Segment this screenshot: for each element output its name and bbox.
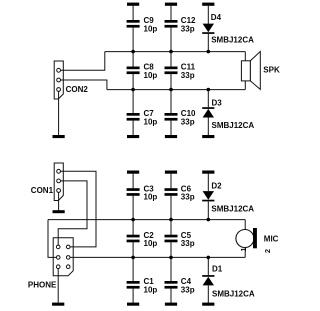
ground bar under PHONE [52, 303, 64, 306]
diode D3 [202, 98, 254, 130]
diode D3 wire top [207, 90, 209, 108]
svg-text:CON1: CON1 [31, 186, 54, 195]
diode D4 wire top [207, 5, 209, 24]
ground bar under C7 [127, 135, 139, 138]
wire C4 top [170, 257, 172, 281]
capacitor C2 [127, 231, 158, 248]
diode D1 [202, 264, 255, 298]
svg-text:10p: 10p [144, 239, 158, 248]
diode D2 [202, 182, 254, 214]
node rail2/D3 [207, 88, 211, 92]
capacitor C5 [165, 231, 195, 248]
diode D2 wire top [207, 173, 209, 192]
wire C9 bottom [132, 27, 134, 51]
svg-text:10p: 10p [144, 286, 158, 295]
diode D1 wire bottom [207, 285, 209, 304]
wire C8 bottom [132, 74, 134, 90]
wire PHONE left-bottom pin to ground [57, 269, 59, 303]
ground bar under CON1 [53, 210, 65, 213]
svg-text:SMBJ12CA: SMBJ12CA [212, 121, 255, 130]
svg-text:33p: 33p [181, 239, 195, 248]
supply bar above D2 [202, 171, 214, 174]
node rail3/C6 [169, 218, 173, 222]
wire C5 top [170, 220, 172, 236]
wire C5 bottom [170, 242, 172, 258]
node rail4/C5 [169, 256, 173, 260]
wire CON1 pin3 to ground [58, 192, 60, 211]
wire C7 top [132, 90, 134, 114]
ground bar under C10 [165, 135, 177, 138]
svg-text:SMBJ12CA: SMBJ12CA [212, 289, 255, 298]
capacitor C4 [165, 277, 195, 294]
svg-text:D3: D3 [212, 98, 223, 107]
wire C12 bottom [170, 27, 172, 51]
wire rail3 (net to MIC top) [48, 219, 245, 221]
wire CON2 pin1 to rail1 [61, 52, 105, 71]
svg-text:33p: 33p [181, 286, 195, 295]
svg-text:10p: 10p [144, 118, 158, 127]
wire C6 top [170, 173, 172, 189]
wire C11 top [170, 52, 172, 67]
capacitor C11 [165, 63, 196, 80]
wire C2 top [132, 220, 134, 236]
svg-text:D4: D4 [211, 13, 222, 22]
svg-text:MIC: MIC [264, 234, 279, 243]
capacitor C10 [165, 109, 197, 126]
ground bar under C4 [165, 303, 177, 306]
capacitor C3 [127, 184, 158, 201]
svg-text:PHONE: PHONE [28, 281, 57, 290]
wire C4 bottom [170, 288, 172, 304]
connector CON1 [31, 163, 64, 201]
supply bar above C6 [165, 171, 177, 174]
wire C1 bottom [132, 288, 134, 304]
diode D2 wire bottom [207, 201, 209, 219]
connector PHONE [28, 238, 73, 290]
wire C7 bottom [132, 120, 134, 136]
wire C9 top [132, 5, 134, 21]
diode D1 wire top [207, 257, 209, 275]
svg-text:33p: 33p [181, 71, 195, 80]
node rail2/C11 [169, 88, 173, 92]
ground bar under CON2 [53, 135, 65, 138]
wire CON1 pin1 to PHONE right-top pin [61, 171, 97, 247]
wire rail1 (net to SPK top) [105, 51, 246, 53]
wire C12 top [170, 5, 172, 21]
svg-text:33p: 33p [181, 118, 195, 127]
node rail3/C3 [131, 218, 135, 222]
svg-text:SMBJ12CA: SMBJ12CA [211, 36, 254, 45]
wire CON2 pin2 to rail2 [61, 80, 107, 90]
ground bar under D3 [202, 135, 214, 138]
node rail4/C2 [131, 256, 135, 260]
svg-text:33p: 33p [181, 193, 195, 202]
svg-text:10p: 10p [144, 25, 158, 34]
wire CON2 pin3 to ground [58, 91, 60, 136]
capacitor C12 [165, 16, 197, 33]
supply bar above D4 [202, 3, 214, 6]
wire C10 bottom [170, 120, 172, 136]
wire C3 bottom [132, 195, 134, 219]
wire C10 top [170, 90, 172, 114]
svg-text:CON2: CON2 [66, 85, 89, 94]
wire CON1 pin2 to PHONE left-top pin [58, 181, 87, 245]
node rail2/C8 [131, 88, 135, 92]
node rail1/C12 [169, 50, 173, 54]
node rail3/D2 [207, 218, 211, 222]
wire C2 bottom [132, 242, 134, 258]
capacitor C1 [127, 277, 158, 294]
svg-text:2: 2 [263, 249, 272, 253]
capacitor C9 [127, 16, 158, 33]
node rail4/D1 [207, 256, 211, 260]
wire C1 top [132, 257, 134, 281]
supply bar above C9 [127, 3, 139, 6]
wire C3 top [132, 173, 134, 189]
supply bar above C12 [165, 3, 177, 6]
svg-text:10p: 10p [144, 193, 158, 202]
wire rail3 drop to PHONE left-middle pin [48, 220, 56, 258]
speaker SPK [241, 51, 280, 89]
capacitor C7 [127, 109, 158, 126]
supply bar above C3 [127, 171, 139, 174]
node rail1/D4 [207, 50, 211, 54]
svg-text:SMBJ12CA: SMBJ12CA [211, 204, 254, 213]
ground bar under D1 [202, 303, 214, 306]
connector CON2 [54, 61, 88, 99]
wire rail4 (PHONE right-middle pin to MIC bottom) [70, 256, 245, 258]
svg-text:SPK: SPK [263, 66, 280, 75]
diode D3 wire bottom [207, 118, 209, 137]
wire C11 bottom [170, 74, 172, 90]
wire rail2 (net to SPK bottom) [107, 89, 245, 91]
svg-text:10p: 10p [144, 71, 158, 80]
diode D4 [202, 13, 254, 45]
diode D4 wire bottom [207, 34, 209, 52]
capacitor C8 [127, 63, 158, 80]
node rail1/C9 [131, 50, 135, 54]
svg-text:1: 1 [239, 247, 248, 251]
svg-text:33p: 33p [181, 25, 195, 34]
capacitor C6 [165, 184, 195, 201]
ground bar under C1 [127, 303, 139, 306]
wire C8 top [132, 52, 134, 67]
svg-text:D2: D2 [211, 182, 222, 191]
wire C6 bottom [170, 195, 172, 219]
svg-text:D1: D1 [212, 264, 223, 273]
microphone MIC [236, 220, 279, 258]
